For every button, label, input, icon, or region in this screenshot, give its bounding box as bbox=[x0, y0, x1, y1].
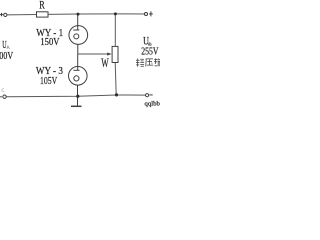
svg-text:255V: 255V bbox=[141, 47, 159, 58]
svg-text:300V: 300V bbox=[0, 51, 13, 62]
svg-text:qqlbb: qqlbb bbox=[145, 101, 161, 108]
svg-text:105V: 105V bbox=[40, 75, 57, 87]
svg-text:W: W bbox=[101, 56, 108, 70]
svg-text:150V: 150V bbox=[40, 37, 59, 48]
svg-text:R: R bbox=[39, 0, 45, 12]
svg-text:U: U bbox=[2, 40, 7, 51]
